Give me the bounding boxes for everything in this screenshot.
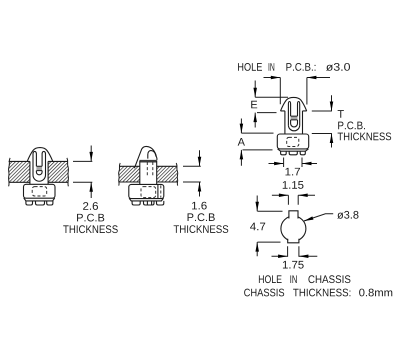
snap outline side view — [134, 146, 157, 168]
label CHASSIS — [308, 275, 350, 283]
label 1.75 — [283, 261, 304, 269]
inner arc (slot from side) — [148, 151, 156, 159]
feet ledge and chamfers — [24, 198, 55, 201]
chassis hole circle — [281, 216, 306, 241]
dome arrow head — [27, 148, 53, 162]
feet — [281, 151, 287, 155]
post sides — [285, 111, 303, 134]
top tab — [289, 211, 298, 219]
label THICKNESS: — [293, 289, 350, 297]
inner small U — [291, 120, 298, 127]
dim 1.6 arrows — [199, 150, 201, 196]
label IN — [290, 275, 296, 283]
barb ledge — [140, 160, 157, 163]
dim A — [240, 119, 242, 166]
label CHASSIS — [244, 289, 284, 297]
label P.C.B.: — [286, 63, 315, 71]
label IN — [269, 63, 275, 71]
inner dashed rect — [32, 187, 47, 196]
body rounded rect — [24, 184, 56, 198]
label HOLE — [238, 63, 262, 71]
inner small U — [36, 171, 42, 175]
feet — [132, 201, 140, 205]
hidden slot dashed lines — [147, 162, 153, 177]
label P.C.B. — [338, 122, 365, 130]
label 1.15 — [283, 181, 304, 189]
dim 1.75 — [288, 246, 299, 256]
label ø3.8 — [337, 211, 358, 219]
barb underside — [281, 110, 307, 112]
leader 3.8 — [304, 214, 333, 221]
bottom tab — [288, 239, 299, 243]
label THICKNESS — [63, 225, 118, 233]
prong caps and outer U slot — [33, 151, 36, 175]
post sides — [140, 161, 157, 185]
gray bridge bar in slot — [36, 166, 42, 170]
label 1.7 — [285, 168, 300, 176]
dim 1.6 ext lines — [183, 166, 201, 182]
label 0.8mm — [359, 289, 392, 297]
prong caps and outer U slot — [288, 102, 290, 126]
post sides — [30, 161, 48, 184]
dim T — [331, 95, 333, 147]
pcb hatch right block — [48, 158, 68, 186]
label THICKNESS — [174, 225, 229, 233]
gray bridge bar in slot — [291, 116, 298, 120]
hole ext lines — [280, 78, 307, 105]
feet — [26, 201, 33, 205]
label 2.6 — [83, 202, 98, 210]
dim 1.7 — [284, 158, 302, 168]
feet ledge and chamfers — [129, 198, 163, 201]
pcb hatch left block — [8, 158, 29, 186]
label P.C.B — [188, 213, 215, 221]
feet ledge and chamfers — [278, 149, 309, 151]
dim 1.15 — [272, 194, 315, 196]
bottom texts — [63, 63, 392, 296]
dim E — [254, 81, 256, 128]
inner dashed rect — [141, 187, 156, 198]
pcb hatch right block — [157, 163, 178, 186]
label T — [338, 110, 344, 118]
label 4.7 — [250, 223, 265, 231]
inner dashed rect — [287, 137, 299, 146]
dim 4.7 — [256, 196, 258, 257]
label E — [251, 101, 257, 109]
dim 2.6 arrows — [90, 146, 92, 199]
body rounded rect — [129, 184, 164, 198]
pcb hatch left block — [119, 163, 140, 186]
body corner edge line — [157, 184, 159, 198]
hole dim arrows — [264, 77, 331, 79]
label ø3.0 — [326, 63, 350, 71]
dome arrow head — [281, 97, 307, 111]
label 1.6 — [192, 202, 207, 210]
label HOLE — [259, 275, 282, 283]
label A — [238, 138, 245, 146]
dim 2.6 ext lines — [73, 161, 92, 182]
body rounded rect — [277, 134, 308, 149]
label THICKNESS — [338, 133, 392, 141]
label P.C.B — [77, 214, 104, 222]
